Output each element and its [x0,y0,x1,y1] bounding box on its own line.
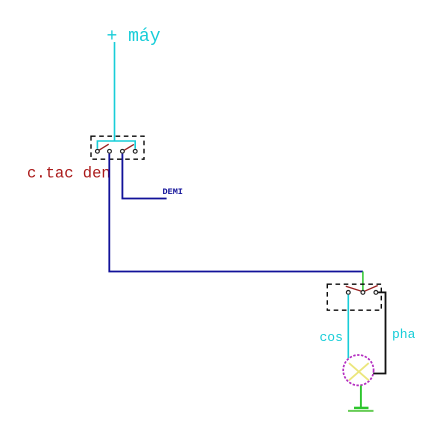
wire from +may to switch S1 [114,42,116,141]
wire main run from S1 to S2 [109,154,363,272]
svg-text:DEMI: DEMI [163,187,183,197]
svg-text:pha: pha [392,327,416,342]
lamp DS1 filament X [349,363,369,380]
switch S1 contact 2 [108,149,112,153]
lamp DS1 bulb [343,355,373,385]
switch S1 contact 3 [121,149,125,153]
ground bar 2 [348,410,374,412]
switch S2 contact common [361,291,365,295]
ground bar 1 [354,407,369,409]
switch S2 contact cos [346,291,350,295]
wire DEMI stub [122,154,166,199]
svg-text:cos: cos [320,330,343,345]
switch S1 contact 1 [96,149,100,153]
switch S2 box (cos/pha) [327,284,381,310]
switch S2 blade right [364,286,377,292]
switch S1 box (c.tac den) [91,136,144,159]
wire cos to lamp [347,295,349,359]
switch S2 contact pha [374,291,378,295]
wire lamp to ground [360,386,362,408]
wire pha to lamp [373,292,386,373]
wire green drop into S2 [362,272,364,291]
wire cyan bus inside S1 [97,141,135,149]
switch S1 contact 4 [133,149,137,153]
switch S1 blade a [99,144,109,150]
switch S1 blade b [124,144,134,150]
svg-text:c.tac den: c.tac den [27,165,111,183]
switch S2 blade left [346,286,362,291]
